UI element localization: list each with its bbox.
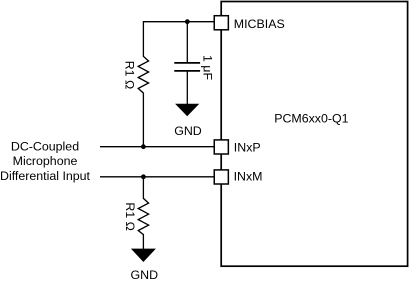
svg-text:INxP: INxP	[234, 141, 261, 155]
svg-text:PCM6xx0-Q1: PCM6xx0-Q1	[274, 111, 348, 125]
svg-text:Differential Input: Differential Input	[0, 169, 91, 183]
svg-text:MICBIAS: MICBIAS	[234, 17, 285, 31]
svg-text:GND: GND	[174, 124, 202, 138]
svg-text:DC-Coupled: DC-Coupled	[11, 139, 79, 153]
svg-text:R1 Ω: R1 Ω	[123, 202, 137, 231]
svg-text:INxM: INxM	[234, 169, 263, 183]
svg-text:GND: GND	[131, 268, 159, 282]
svg-text:Microphone: Microphone	[13, 154, 78, 168]
svg-text:1 μF: 1 μF	[201, 55, 215, 80]
svg-text:R1 Ω: R1 Ω	[123, 61, 137, 90]
